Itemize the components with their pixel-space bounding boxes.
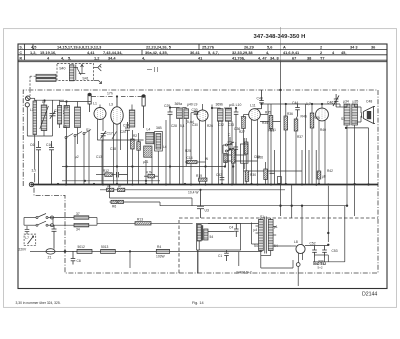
svg-text:S40: S40 <box>59 66 65 70</box>
svg-text:Z1: Z1 <box>48 256 52 260</box>
rf coil L3a <box>64 106 70 128</box>
resistor R23 <box>224 154 228 167</box>
loudspeaker <box>361 107 375 124</box>
label S41 <box>82 77 88 81</box>
resistor R31 <box>244 138 248 184</box>
label S40 <box>59 66 65 70</box>
label R11 <box>118 184 122 188</box>
label 5012 <box>78 245 86 249</box>
earth terminal E <box>25 103 29 107</box>
cap C42 <box>220 170 225 180</box>
svg-text:C16: C16 <box>46 143 52 147</box>
choke S4 <box>197 225 203 242</box>
resistor R28 <box>231 149 235 184</box>
label L3 <box>109 103 113 107</box>
main ground bus <box>31 184 378 186</box>
svg-text:4: 4 <box>332 50 335 55</box>
label Z1 <box>48 256 52 260</box>
svg-text:C35: C35 <box>254 155 260 159</box>
label C11 <box>218 254 222 258</box>
svg-text:5,: 5, <box>68 55 71 60</box>
table row 3 text <box>20 55 325 60</box>
svg-text:R36: R36 <box>287 112 293 116</box>
label T32 <box>241 116 247 120</box>
label 54b <box>210 235 214 239</box>
svg-text:µ8: µ8 <box>322 175 326 179</box>
svg-text:3,30 in nummer über 324, 325.: 3,30 in nummer über 324, 325. <box>16 301 61 305</box>
fold line <box>280 27 282 62</box>
wire verticals misc <box>102 62 316 216</box>
svg-text:D2144: D2144 <box>362 292 377 298</box>
svg-text:C32: C32 <box>218 123 224 127</box>
IF1 cap C29 <box>168 108 173 185</box>
svg-text:26,29: 26,29 <box>244 45 255 50</box>
tube L11 detector <box>249 109 261 121</box>
svg-text:5012: 5012 <box>78 245 86 249</box>
antenna coil L2 <box>40 105 49 131</box>
cap C8 <box>71 251 76 264</box>
svg-text:1,2,: 1,2, <box>30 50 37 55</box>
label R4 <box>157 245 161 249</box>
svg-text:347-348-349-350 H: 347-348-349-350 H <box>254 34 306 40</box>
wire switch feed <box>54 216 98 227</box>
label L7 <box>25 236 29 240</box>
output transformer primary <box>344 104 350 125</box>
svg-text:µ7: µ7 <box>118 184 122 188</box>
resistor R6b <box>110 200 161 203</box>
svg-text:4,41: 4,41 <box>87 50 95 55</box>
cap C34 <box>234 108 239 184</box>
filter unit box <box>197 224 241 251</box>
label C46 <box>327 101 333 105</box>
svg-text:C46: C46 <box>327 101 333 105</box>
drawing number D2144 <box>362 292 377 298</box>
label R13 <box>137 218 143 222</box>
label S6 <box>260 215 264 219</box>
tube L1 rf amp <box>94 108 106 120</box>
cathode resistor R48 <box>317 171 321 179</box>
resistor R4 <box>156 249 169 253</box>
svg-text:R: R <box>20 56 23 60</box>
svg-text:U3: U3 <box>205 209 209 213</box>
pickup lead cap <box>25 226 30 234</box>
aerial selector dashed box S40 <box>57 64 94 81</box>
misc small labels <box>30 100 345 173</box>
svg-text:38: 38 <box>307 55 312 60</box>
svg-text:L1: L1 <box>30 108 34 112</box>
block C39 <box>240 138 248 169</box>
label R45 <box>314 116 320 120</box>
cap C6 <box>36 141 41 185</box>
svg-text:67: 67 <box>292 55 296 60</box>
label C24 <box>123 124 129 128</box>
label 322 <box>318 260 324 264</box>
label C40 <box>257 97 263 101</box>
wire rf coils <box>60 102 91 185</box>
svg-text:C20: C20 <box>120 130 126 134</box>
label C4 <box>229 226 233 230</box>
label C48 <box>366 99 372 103</box>
frame border <box>18 44 387 289</box>
filter cap C53 <box>322 246 327 258</box>
mains drop wire <box>129 251 131 268</box>
wire psu feed <box>291 185 293 219</box>
cap C2 <box>63 111 68 113</box>
label W26 <box>257 156 264 160</box>
svg-text:R42: R42 <box>327 169 333 173</box>
svg-text:R34: R34 <box>262 121 268 125</box>
cap C16 <box>49 141 54 185</box>
svg-text:C42: C42 <box>216 173 222 177</box>
label C29 <box>164 104 170 108</box>
svg-text:5013: 5013 <box>101 245 109 249</box>
svg-text:C8: C8 <box>77 259 81 263</box>
antenna coil L1 <box>33 101 37 135</box>
junction speaker return <box>345 127 370 186</box>
wire IF1 <box>170 108 194 185</box>
label C44 <box>292 101 298 105</box>
label T32b <box>76 228 80 232</box>
block R44 <box>278 177 282 184</box>
svg-text:103W: 103W <box>156 255 166 259</box>
svg-text:32,33,29,38: 32,33,29,38 <box>232 50 253 55</box>
svg-text:R19: R19 <box>196 174 202 178</box>
svg-text:W: W <box>205 157 208 161</box>
resistor R10 <box>107 188 114 191</box>
label C16 <box>46 143 52 147</box>
speaker field wires <box>313 186 345 262</box>
resistor R45 <box>310 104 314 184</box>
cap C24 <box>125 122 130 184</box>
pilot lamp <box>296 263 300 267</box>
svg-text:C52: C52 <box>310 242 316 246</box>
svg-text:R35: R35 <box>265 111 271 115</box>
cap C40 <box>255 90 264 109</box>
rectifier output link <box>305 245 328 247</box>
resistor R37 <box>294 119 298 184</box>
svg-text:R30: R30 <box>250 173 256 177</box>
cap C35b <box>231 153 235 155</box>
tube L5 IF amp <box>197 110 208 121</box>
table lines <box>18 44 387 62</box>
svg-text:36,41: 36,41 <box>190 50 201 55</box>
title 347-348-349-350 H <box>254 34 306 40</box>
svg-text:5, 4,7,: 5, 4,7, <box>208 50 219 55</box>
resistor R11 <box>118 188 125 191</box>
svg-text:µ34: µ34 <box>343 100 349 104</box>
IF transformer 2 secondary <box>225 109 231 122</box>
dashed lead-in wire <box>30 76 36 96</box>
svg-text:µ2: µ2 <box>75 155 79 159</box>
svg-text:C53: C53 <box>332 249 338 253</box>
decoupling line <box>110 185 193 206</box>
svg-text:1,7: 1,7 <box>306 102 311 106</box>
earth arrow <box>94 81 102 84</box>
label mains V <box>19 248 28 252</box>
wire left drop <box>34 173 36 182</box>
svg-text:S.: S. <box>20 46 23 50</box>
svg-text:22,23,24,26, 5: 22,23,24,26, 5 <box>146 45 172 50</box>
svg-text:36: 36 <box>371 45 376 50</box>
label R17 <box>146 171 152 175</box>
coil L21 <box>58 106 62 125</box>
tube L5 leads <box>200 104 206 184</box>
resistor R39 <box>264 162 268 185</box>
grid cap post 1 <box>88 93 91 112</box>
svg-text:10,4 W: 10,4 W <box>188 190 199 194</box>
svg-text:R26: R26 <box>207 124 213 128</box>
svg-text:1,2: 1,2 <box>94 55 100 60</box>
label R10 <box>107 184 111 188</box>
label C6 <box>30 143 34 147</box>
resistor R6a <box>111 200 117 203</box>
mains switch S13 <box>24 214 53 227</box>
svg-text:37: 37 <box>76 212 80 216</box>
label R24 <box>187 156 193 160</box>
junction dots mid2 <box>224 148 234 168</box>
tube L3 leads <box>112 123 121 184</box>
wire IF2 <box>212 105 232 185</box>
svg-text:17h: 17h <box>107 92 113 96</box>
label L1t <box>93 102 97 106</box>
trimmer C17 <box>101 131 107 142</box>
label R19 <box>196 174 202 178</box>
label 54r <box>274 244 278 248</box>
cap C30 <box>194 112 198 114</box>
svg-text:C4: C4 <box>229 226 233 230</box>
grid cap shield wire <box>92 96 143 98</box>
table row 1 text <box>20 45 377 50</box>
resistor R19 <box>199 178 208 181</box>
grid cap post 2 <box>142 95 145 128</box>
caption Fig <box>192 301 204 305</box>
switch drop cap <box>52 225 57 249</box>
volume pot R33 <box>224 150 258 184</box>
svg-text:5,4: 5,4 <box>180 124 185 128</box>
cap C31 <box>194 112 199 114</box>
junction mains <box>64 250 67 253</box>
svg-text:R25: R25 <box>185 149 191 153</box>
svg-text:R37: R37 <box>297 135 303 139</box>
svg-text:C6: C6 <box>30 143 34 147</box>
svg-text:24496 5+2: 24496 5+2 <box>236 271 252 275</box>
svg-text:L4: L4 <box>147 128 151 132</box>
svg-text:T7: T7 <box>320 55 325 60</box>
wire antenna bottom <box>27 116 59 169</box>
label S5 <box>353 100 359 104</box>
antenna terminal A <box>26 96 31 101</box>
svg-text:4,5: 4,5 <box>31 45 37 50</box>
label 24496 <box>236 271 252 275</box>
svg-text:369a: 369a <box>175 102 183 106</box>
heater wire <box>261 256 293 269</box>
svg-text:R6: R6 <box>112 204 116 208</box>
wire mains run <box>55 250 262 252</box>
tube L6 output <box>316 108 329 121</box>
mains lead <box>30 250 46 252</box>
svg-text:C1: C1 <box>218 254 222 258</box>
label L8 <box>294 240 298 244</box>
rectifier leads <box>291 206 303 286</box>
wire output stage <box>336 104 361 216</box>
label L4 <box>147 128 151 132</box>
svg-text:L4: L4 <box>163 145 167 149</box>
label S3 <box>343 100 349 104</box>
label L6 <box>306 102 311 106</box>
svg-text:C14: C14 <box>187 156 193 160</box>
svg-text:A: A <box>283 45 286 50</box>
label T31 <box>76 212 80 216</box>
cap C38 <box>228 137 233 149</box>
junction dots speaker <box>327 232 329 246</box>
svg-text:Fig. 14: Fig. 14 <box>192 301 204 305</box>
resistor R32 <box>242 115 246 185</box>
label 103W <box>156 255 166 259</box>
label 17h <box>107 92 113 96</box>
fuse Z1 <box>46 249 55 254</box>
svg-text:C30: C30 <box>192 123 198 127</box>
dropper resistor 5013 <box>101 249 116 253</box>
label R46 <box>301 115 307 119</box>
label R30 <box>250 173 256 177</box>
svg-text:3,5: 3,5 <box>32 169 37 173</box>
pickup dashed box L7 <box>24 234 36 246</box>
resistor R22 <box>137 133 141 184</box>
svg-text:R12: R12 <box>103 169 109 173</box>
svg-text:C24: C24 <box>123 124 129 128</box>
label 10,4W <box>188 190 199 194</box>
resistor R13 <box>97 222 193 225</box>
label 5013 <box>101 245 109 249</box>
svg-text:C28: C28 <box>171 124 177 128</box>
cap C45 <box>270 171 275 173</box>
label C36 <box>234 127 240 131</box>
svg-text:C2: C2 <box>64 106 68 110</box>
svg-text:4: 4 <box>47 55 50 60</box>
svg-text:µ31: µ31 <box>143 160 149 164</box>
wire filter unit <box>198 224 259 274</box>
stray marks <box>147 67 158 72</box>
junction dots bus <box>57 183 356 186</box>
svg-text:S1: S1 <box>86 128 90 132</box>
speaker return wire <box>346 128 369 185</box>
label 54c <box>186 120 194 124</box>
svg-text:2: 2 <box>320 50 323 55</box>
HT line <box>160 202 347 206</box>
svg-text:25,27b: 25,27b <box>202 45 215 50</box>
plug connector <box>51 216 54 227</box>
svg-text:5+2: 5+2 <box>318 265 323 269</box>
label 54 <box>254 244 258 248</box>
svg-text:45,: 45, <box>341 50 346 55</box>
svg-text:R40: R40 <box>320 128 326 132</box>
svg-text:34B: 34B <box>156 126 162 130</box>
dropper resistor 5012 <box>77 249 92 253</box>
svg-text:220V: 220V <box>19 248 28 252</box>
IF transformer 2 primary <box>218 109 224 122</box>
tube L1 leads <box>98 105 104 141</box>
junction dots top <box>43 89 323 168</box>
resistor R24 <box>185 161 206 164</box>
bottom caption left <box>16 301 61 305</box>
padder lead <box>102 142 104 185</box>
label W1 <box>274 225 278 229</box>
cap C46 <box>333 94 339 107</box>
resistor R30 <box>245 171 249 182</box>
svg-text:S3: S3 <box>341 117 345 121</box>
label C52 <box>310 242 316 246</box>
label 3,5 <box>32 169 37 173</box>
svg-text:C: C <box>228 133 231 137</box>
wire horizontals mid <box>62 140 302 171</box>
svg-text:41: 41 <box>198 55 203 60</box>
wire AF coupling <box>260 104 340 184</box>
svg-text:7,43,44,34,: 7,43,44,34, <box>103 50 122 55</box>
svg-text:R2: R2 <box>133 134 137 138</box>
svg-text:R4: R4 <box>157 245 161 249</box>
svg-text:369b: 369b <box>216 103 224 107</box>
svg-text:54: 54 <box>254 244 258 248</box>
label 369b <box>216 103 224 107</box>
cap C11 <box>224 253 229 261</box>
svg-text:41,70b,: 41,70b, <box>232 55 245 60</box>
rf coil L3b <box>75 107 81 128</box>
label C30 <box>192 108 198 112</box>
aerial arrow in box <box>77 64 85 75</box>
chassis dash-dot enclosure <box>23 90 378 273</box>
svg-text:34: 34 <box>76 228 80 232</box>
bus terminal <box>29 182 33 186</box>
oscillator coil pack S2 <box>144 131 163 184</box>
svg-text:C1: C1 <box>54 109 58 113</box>
resistor R21 <box>131 130 135 184</box>
resistor R36 <box>284 116 288 184</box>
svg-text:µ1: µ1 <box>274 225 278 229</box>
pickup arrow <box>28 236 34 244</box>
svg-text:2: 2 <box>320 45 323 50</box>
label U3 <box>205 209 209 213</box>
svg-text:L1: L1 <box>93 102 97 106</box>
cap C37 <box>234 142 239 155</box>
svg-text:C: C <box>20 51 23 55</box>
label C8 <box>77 259 81 263</box>
svg-text:54: 54 <box>210 235 214 239</box>
junction mains drop <box>129 250 131 252</box>
label R48 <box>322 175 326 179</box>
winding 54 <box>204 229 208 240</box>
switch S33 contacts <box>223 142 234 154</box>
label C17 <box>107 132 113 136</box>
filter cap C52 <box>312 246 317 258</box>
label 369a <box>175 102 183 106</box>
table row 2 text <box>20 50 347 55</box>
band switch contacts S1 <box>65 130 91 185</box>
label R12 <box>103 169 109 173</box>
tube L11 leads <box>244 115 269 185</box>
svg-text:L7: L7 <box>25 236 29 240</box>
junction dots HT <box>199 189 348 207</box>
svg-text:14,15,17,19,6,8,21,9,12,3: 14,15,17,19,6,8,21,9,12,3 <box>57 45 102 50</box>
wire antenna top <box>27 98 64 136</box>
svg-text:C30: C30 <box>192 108 198 112</box>
svg-text:µ35: µ35 <box>353 100 359 104</box>
antenna Y terminal <box>94 64 102 71</box>
svg-text:4,: 4, <box>266 50 269 55</box>
svg-text:4, 47: 4, 47 <box>258 55 267 60</box>
svg-text:C48: C48 <box>366 99 372 103</box>
svg-text:R46: R46 <box>301 115 307 119</box>
cap C4 <box>234 224 239 238</box>
